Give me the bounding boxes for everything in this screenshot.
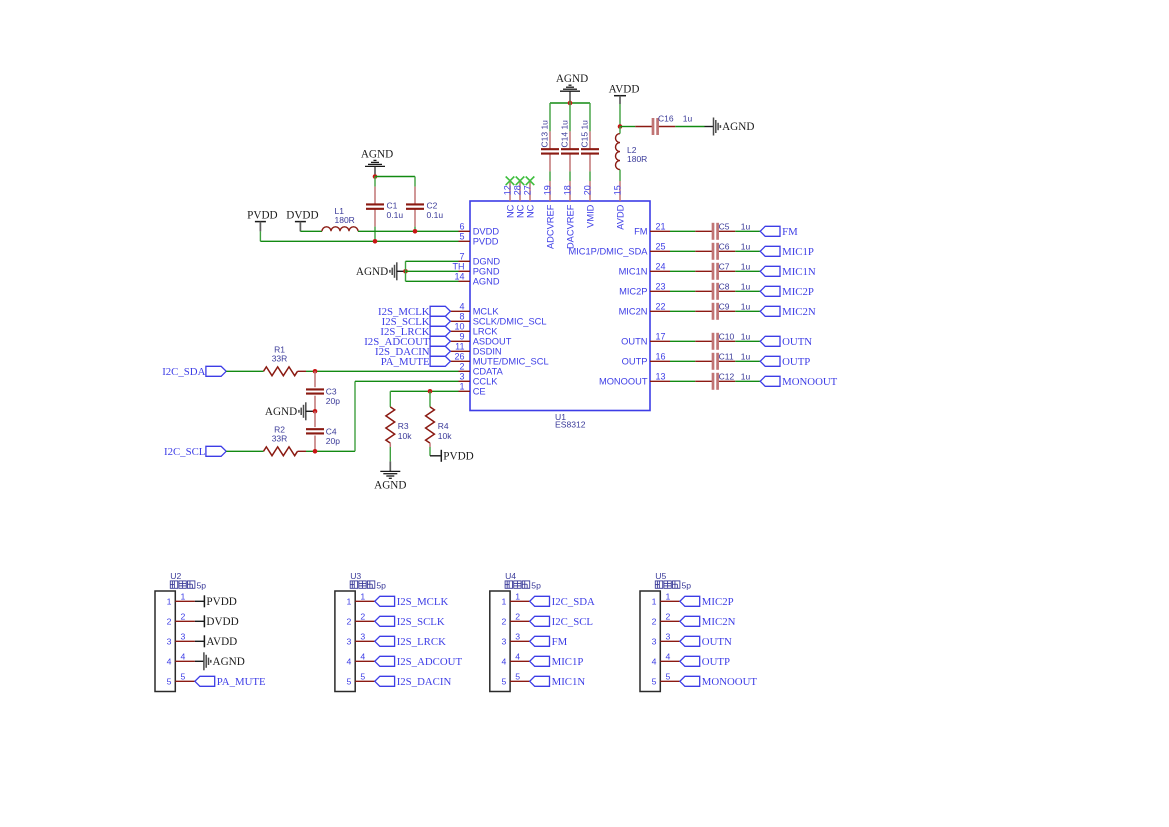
connector U4 邮票孔5p body (490, 571, 541, 692)
svg-text:180R: 180R (627, 154, 647, 164)
capacitor C11 (695, 353, 735, 370)
capacitor C15 (581, 131, 599, 171)
wire PVDD down (259, 231, 261, 241)
wire C7 to port MIC1N (735, 270, 760, 272)
pin 19 ADCVREF (U1 top) (543, 181, 556, 249)
wire pin to C11 (670, 360, 695, 362)
svg-text:LRCK: LRCK (473, 327, 499, 337)
ground AGND (below R3) (374, 471, 406, 491)
svg-text:FM: FM (552, 636, 568, 648)
svg-text:ADCVREF: ADCVREF (545, 204, 555, 249)
svg-text:AVDD: AVDD (206, 636, 237, 648)
svg-text:4: 4 (181, 651, 186, 661)
svg-text:U3: U3 (350, 571, 361, 581)
svg-text:I2S_MCLK: I2S_MCLK (397, 596, 449, 608)
ground stub R3 (389, 461, 391, 471)
svg-text:4: 4 (652, 657, 657, 667)
svg-text:5: 5 (666, 671, 671, 681)
svg-text:1: 1 (501, 597, 506, 607)
pin 20 VMID (U1 top) (583, 181, 596, 228)
wire C9 to port MIC2N (735, 310, 760, 312)
svg-text:1: 1 (181, 591, 186, 601)
svg-text:DVDD: DVDD (473, 227, 500, 237)
svg-text:U5: U5 (655, 571, 666, 581)
svg-text:C6: C6 (719, 242, 730, 252)
svg-text:AVDD: AVDD (615, 204, 625, 229)
label C8 1u (719, 282, 751, 292)
pin 1 of U2 (167, 591, 195, 606)
wire CE line (390, 390, 458, 392)
wire SCL to CCLK pin 3 (355, 381, 459, 451)
port I2S_DACIN (to U1) (375, 346, 450, 358)
svg-text:C4: C4 (326, 426, 337, 436)
wire C15 to pin 20 (589, 171, 591, 181)
wire down to C2 (414, 177, 416, 187)
label C2 0.1u (427, 200, 444, 220)
wire stub AGND C3/C4 (306, 410, 315, 412)
label C14 1u (560, 120, 570, 148)
pin 18 DACVREF (U1 top) (563, 181, 576, 249)
svg-text:ASDOUT: ASDOUT (473, 337, 512, 347)
svg-text:MCLK: MCLK (473, 307, 500, 317)
label C7 1u (719, 262, 751, 272)
svg-text:21: 21 (656, 222, 666, 232)
pin 3 of U4 (501, 631, 529, 646)
pin 4 of U5 (652, 651, 680, 666)
svg-text:1u: 1u (741, 332, 751, 342)
svg-text:9: 9 (459, 332, 464, 342)
wire AGND bus to C13/C14/C15 (550, 102, 590, 104)
svg-text:7: 7 (459, 252, 464, 262)
svg-text:5p: 5p (531, 580, 541, 590)
svg-text:I2S_LRCK: I2S_LRCK (397, 636, 446, 648)
resistor R1 (264, 367, 298, 376)
svg-text:24: 24 (656, 262, 666, 272)
junction CE/R4 (428, 389, 433, 394)
pin 2 of U2 (167, 611, 195, 626)
wire stub to AGND flag (705, 126, 714, 128)
svg-text:VMID: VMID (585, 204, 595, 228)
wire stub to PVDD flag (430, 455, 441, 457)
pin 5 of U5 (652, 671, 680, 686)
label C10 1u (719, 332, 751, 342)
svg-text:AGND: AGND (473, 277, 500, 287)
label C9 1u (719, 302, 751, 312)
connector U5 邮票孔5p body (640, 571, 691, 692)
capacitor C3 bottom pin (314, 396, 316, 410)
pin 17 OUTN (U1 right) (621, 332, 670, 347)
power AVDD (609, 84, 640, 104)
wire C6 to port MIC1P (735, 250, 760, 252)
resistor R2 (264, 447, 298, 456)
svg-text:20p: 20p (326, 396, 340, 406)
label C13 1u (540, 120, 550, 148)
junction R1/C3 (313, 369, 318, 374)
resistor R1 right pin (298, 370, 307, 372)
label R2 33R (272, 425, 288, 444)
pin 5 PVDD (U1 left) (459, 232, 499, 247)
wire DVDD to L1 (300, 230, 322, 232)
wire C13 to pin 19 (549, 171, 551, 181)
svg-text:3: 3 (181, 631, 186, 641)
svg-text:2: 2 (347, 617, 352, 627)
pin 25 MIC1P/DMIC_SDA (U1 right) (568, 242, 670, 257)
svg-text:MIC1P: MIC1P (552, 656, 584, 668)
svg-text:AGND: AGND (361, 148, 393, 160)
pin 5 of U4 (501, 671, 529, 686)
svg-text:1: 1 (360, 591, 365, 601)
svg-text:C14 1u: C14 1u (560, 120, 570, 148)
wire pin to C9 (670, 310, 695, 312)
svg-text:1u: 1u (741, 282, 751, 292)
label L1 180R (335, 206, 355, 225)
pin 5 of U2 (167, 671, 195, 686)
label C4 20p (326, 426, 340, 446)
ground symbol AGND top (556, 73, 588, 91)
wire R1 to CDATA pin 2 (306, 370, 459, 372)
svg-text:27: 27 (523, 185, 533, 195)
wire AGND vertical (405, 261, 407, 281)
svg-text:I2C_SDA: I2C_SDA (552, 596, 595, 608)
svg-text:C12: C12 (719, 372, 735, 382)
wire pin to C8 (670, 290, 695, 292)
junction R2/C4 (313, 449, 318, 454)
svg-text:MIC1N: MIC1N (552, 676, 586, 688)
junction AVDD node (618, 124, 623, 129)
svg-text:MUTE/DMIC_SCL: MUTE/DMIC_SCL (473, 357, 549, 367)
svg-text:8: 8 (459, 312, 464, 322)
svg-text:OUTN: OUTN (702, 636, 732, 648)
capacitor C3 plates (306, 389, 324, 393)
port I2S_SCLK (at U3) (375, 616, 445, 628)
svg-text:R4: R4 (438, 421, 449, 431)
svg-text:17: 17 (656, 332, 666, 342)
svg-text:20p: 20p (326, 436, 340, 446)
port I2C_SDA (162, 366, 226, 378)
power AGND (above C1/C2) (374, 167, 376, 175)
pin 3 of U5 (652, 631, 680, 646)
capacitor C5 (695, 223, 735, 240)
connector U2 邮票孔5p body (155, 571, 206, 692)
svg-text:5p: 5p (682, 580, 692, 590)
svg-text:1u: 1u (741, 302, 751, 312)
svg-text:C9: C9 (719, 302, 730, 312)
svg-text:14: 14 (454, 272, 464, 282)
svg-text:0.1u: 0.1u (387, 210, 404, 220)
svg-text:C10: C10 (719, 332, 735, 342)
wire L2 to pin 15 (619, 170, 621, 181)
svg-text:C1: C1 (387, 200, 398, 210)
pin 1 CE (U1 left) (459, 382, 486, 397)
svg-text:PA_MUTE: PA_MUTE (217, 676, 266, 688)
svg-text:C2: C2 (427, 200, 438, 210)
pin 4 MCLK (U1 left) (450, 302, 499, 317)
capacitor C7 (695, 263, 735, 280)
wire pin to C12 (670, 380, 695, 382)
port I2C_SDA (at U4) (530, 596, 595, 608)
svg-text:5: 5 (652, 677, 657, 687)
svg-text:1u: 1u (741, 242, 751, 252)
wire AVDD down (619, 104, 621, 127)
svg-text:10k: 10k (438, 431, 452, 441)
junction C1/PVDD (373, 239, 378, 244)
port MONOOUT (at U5) (680, 676, 757, 688)
port MIC2N (at U5) (680, 616, 736, 628)
svg-text:DGND: DGND (473, 257, 501, 267)
port OUTP (at U5) (680, 656, 730, 668)
power PVDD (right of R4) (441, 450, 473, 463)
svg-text:MONOOUT: MONOOUT (782, 376, 838, 388)
wire down to C1 (374, 177, 376, 187)
no-connect X pin 12 (506, 177, 515, 186)
svg-text:CCLK: CCLK (473, 377, 499, 387)
pin 13 MONOOUT (U1 right) (599, 372, 670, 387)
svg-text:AGND: AGND (374, 479, 406, 491)
svg-text:MIC2P: MIC2P (702, 596, 734, 608)
resistor R4 bottom pin (429, 443, 431, 447)
svg-text:2: 2 (167, 617, 172, 627)
svg-text:5p: 5p (197, 580, 207, 590)
wire pin to C10 (670, 340, 695, 342)
wire C1 top to C2 top (375, 176, 415, 178)
no-connect X pin 27 (526, 177, 535, 186)
port I2S_MCLK (to U1) (378, 306, 450, 318)
ground AGND (left of PGND) (356, 262, 397, 280)
svg-text:OUTN: OUTN (782, 336, 812, 348)
pin 5 of U3 (347, 671, 375, 686)
svg-text:PVDD: PVDD (247, 210, 277, 222)
svg-text:2: 2 (459, 362, 464, 372)
wire stub DVDD U2 (195, 620, 204, 622)
pin 2 of U5 (652, 611, 680, 626)
wire R2 to corner (306, 450, 355, 452)
resistor R3 bottom pin (389, 443, 391, 447)
svg-text:18: 18 (563, 185, 573, 195)
svg-text:1: 1 (167, 597, 172, 607)
svg-text:PA_MUTE: PA_MUTE (381, 356, 430, 368)
port FM (at U4) (530, 636, 568, 648)
label L2 180R (627, 145, 647, 164)
svg-text:C13 1u: C13 1u (540, 120, 550, 148)
svg-text:C8: C8 (719, 282, 730, 292)
wire L1 to pin 6 (358, 230, 459, 232)
port MIC1N (at U4) (530, 676, 586, 688)
junction AGND pins (403, 269, 408, 274)
svg-text:MIC2P: MIC2P (782, 286, 814, 298)
svg-text:28: 28 (513, 185, 523, 195)
label C15 1u (580, 120, 590, 148)
svg-text:MIC1N: MIC1N (782, 266, 816, 278)
pin 2 of U4 (501, 611, 529, 626)
svg-text:1: 1 (666, 591, 671, 601)
svg-text:I2S_ADCOUT: I2S_ADCOUT (397, 656, 463, 668)
svg-text:OUTN: OUTN (621, 337, 647, 347)
svg-text:MONOOUT: MONOOUT (599, 377, 648, 387)
inductor L2 (616, 134, 620, 170)
pin 1 of U4 (501, 591, 529, 606)
power PVDD (top left) (247, 210, 277, 232)
svg-text:PVDD: PVDD (443, 450, 473, 462)
power AGND (top, for C13-C15) (569, 91, 571, 101)
svg-text:4: 4 (666, 651, 671, 661)
capacitor C2 (406, 187, 424, 227)
svg-text:AGND: AGND (265, 406, 297, 418)
pin 1 of U5 (652, 591, 680, 606)
svg-text:U4: U4 (505, 571, 516, 581)
resistor R3 (386, 407, 395, 443)
svg-text:5p: 5p (376, 580, 386, 590)
pin 23 MIC2P (U1 right) (619, 282, 670, 297)
svg-text:R3: R3 (398, 421, 409, 431)
svg-text:MIC2N: MIC2N (782, 306, 816, 318)
svg-text:1u: 1u (741, 222, 751, 232)
label C3 20p (326, 387, 340, 407)
wire pin to C7 (670, 270, 695, 272)
svg-text:15: 15 (613, 185, 623, 195)
svg-text:C5: C5 (719, 222, 730, 232)
port I2S_LRCK (at U3) (375, 636, 446, 648)
port MONOOUT (760, 376, 837, 388)
pin 4 of U4 (501, 651, 529, 666)
junction C2/DVDD (413, 229, 418, 234)
power DVDD (top left) (286, 210, 318, 232)
capacitor C12 (695, 373, 735, 390)
svg-text:23: 23 (656, 282, 666, 292)
port MIC2P (760, 286, 814, 298)
svg-text:MIC1N: MIC1N (619, 267, 648, 277)
port FM (760, 226, 798, 238)
capacitor C10 (695, 333, 735, 350)
power DVDD (at U2) (204, 615, 238, 628)
svg-text:3: 3 (666, 631, 671, 641)
junction AGND C1 (373, 174, 378, 179)
svg-text:MIC2P: MIC2P (619, 287, 647, 297)
wire to PGND pin TH (406, 270, 459, 272)
wire C2 to DVDD line (414, 227, 416, 232)
svg-text:6: 6 (459, 222, 464, 232)
svg-text:20: 20 (583, 185, 593, 195)
svg-text:MIC1P/DMIC_SDA: MIC1P/DMIC_SDA (568, 247, 648, 257)
svg-text:OUTP: OUTP (702, 656, 730, 668)
svg-text:33R: 33R (272, 354, 288, 364)
port OUTP (760, 356, 810, 368)
port MIC1P (at U4) (530, 656, 584, 668)
svg-text:3: 3 (501, 637, 506, 647)
wire PVDD line to pin 5 (260, 240, 458, 242)
port I2S_DACIN (at U3) (375, 676, 452, 688)
label R1 33R (272, 345, 288, 364)
resistor R4 top pin wire (429, 399, 431, 407)
pin 4 of U2 (167, 651, 195, 666)
svg-text:TH: TH (453, 262, 465, 272)
svg-text:33R: 33R (272, 434, 288, 444)
svg-text:NC: NC (515, 204, 525, 218)
svg-text:13: 13 (656, 372, 666, 382)
wire C13 top (549, 103, 551, 131)
port I2C_SCL (164, 446, 226, 458)
pin 14 AGND (U1 left) (454, 272, 499, 287)
wire down to R4 (429, 391, 431, 399)
capacitor C6 (695, 243, 735, 260)
svg-text:5: 5 (347, 677, 352, 687)
pin 3 of U2 (167, 631, 195, 646)
wire C11 to port OUTP (735, 360, 760, 362)
svg-text:3: 3 (167, 637, 172, 647)
ground AGND (C3/C4 mid) (265, 402, 306, 420)
port I2S_SCLK (to U1) (382, 316, 451, 328)
svg-text:2: 2 (652, 617, 657, 627)
capacitor C8 (695, 283, 735, 300)
svg-text:I2C_SCL: I2C_SCL (552, 616, 593, 628)
svg-text:DSDIN: DSDIN (473, 347, 502, 357)
pin 3 of U3 (347, 631, 375, 646)
svg-text:PVDD: PVDD (206, 596, 236, 608)
pin 12 NC (U1 top) (503, 181, 516, 218)
inductor L1 (322, 227, 358, 232)
svg-text:4: 4 (501, 657, 506, 667)
svg-text:3: 3 (652, 637, 657, 647)
pin 6 DVDD (U1 left) (459, 222, 500, 237)
svg-text:5: 5 (515, 671, 520, 681)
pin 4 of U3 (347, 651, 375, 666)
svg-text:MONOOUT: MONOOUT (702, 676, 758, 688)
wire pin to C5 (670, 230, 695, 232)
pin 15 AVDD (U1 top) (613, 181, 626, 230)
svg-text:C11: C11 (719, 352, 734, 362)
resistor R4 (426, 407, 435, 443)
svg-text:5: 5 (501, 677, 506, 687)
pin 16 OUTP (U1 right) (622, 352, 670, 367)
svg-text:CDATA: CDATA (473, 367, 504, 377)
svg-text:5: 5 (459, 232, 464, 242)
wire C14 to pin 18 (569, 171, 571, 181)
svg-text:0.1u: 0.1u (427, 210, 444, 220)
svg-text:1: 1 (515, 591, 520, 601)
op-amp U1 ES8312 body (470, 201, 650, 430)
port I2S_MCLK (at U3) (375, 596, 449, 608)
svg-text:C15 1u: C15 1u (580, 120, 590, 148)
capacitor C13 (541, 131, 559, 171)
svg-text:C16: C16 (658, 113, 674, 123)
svg-text:I2C_SDA: I2C_SDA (162, 366, 205, 378)
svg-text:2: 2 (360, 611, 365, 621)
pin 10 LRCK (U1 left) (450, 322, 498, 337)
power AVDD (at U2) (204, 635, 237, 648)
wire pin to C6 (670, 250, 695, 252)
svg-text:AGND: AGND (356, 266, 388, 278)
junction C3/C4/AGND (313, 409, 318, 414)
port PA_MUTE (to U1) (381, 356, 451, 368)
svg-text:MIC2N: MIC2N (702, 616, 736, 628)
pin 3 CCLK (U1 left) (459, 372, 499, 387)
svg-text:26: 26 (454, 352, 464, 362)
svg-text:2: 2 (181, 611, 186, 621)
label C6 1u (719, 242, 751, 252)
pin 26 MUTE/DMIC_SCL (U1 left) (450, 352, 548, 367)
label C1 0.1u (387, 200, 404, 220)
svg-text:1: 1 (459, 382, 464, 392)
port PA_MUTE (at U2) (195, 676, 266, 688)
svg-text:CE: CE (473, 387, 486, 397)
junction at C14 top (568, 101, 573, 106)
wire stub AVDD U2 (195, 640, 204, 642)
label C11 1u (719, 352, 751, 362)
svg-text:NC: NC (505, 204, 515, 218)
svg-text:5: 5 (167, 677, 172, 687)
svg-text:5: 5 (360, 671, 365, 681)
svg-text:PGND: PGND (473, 267, 500, 277)
pin 2 of U3 (347, 611, 375, 626)
